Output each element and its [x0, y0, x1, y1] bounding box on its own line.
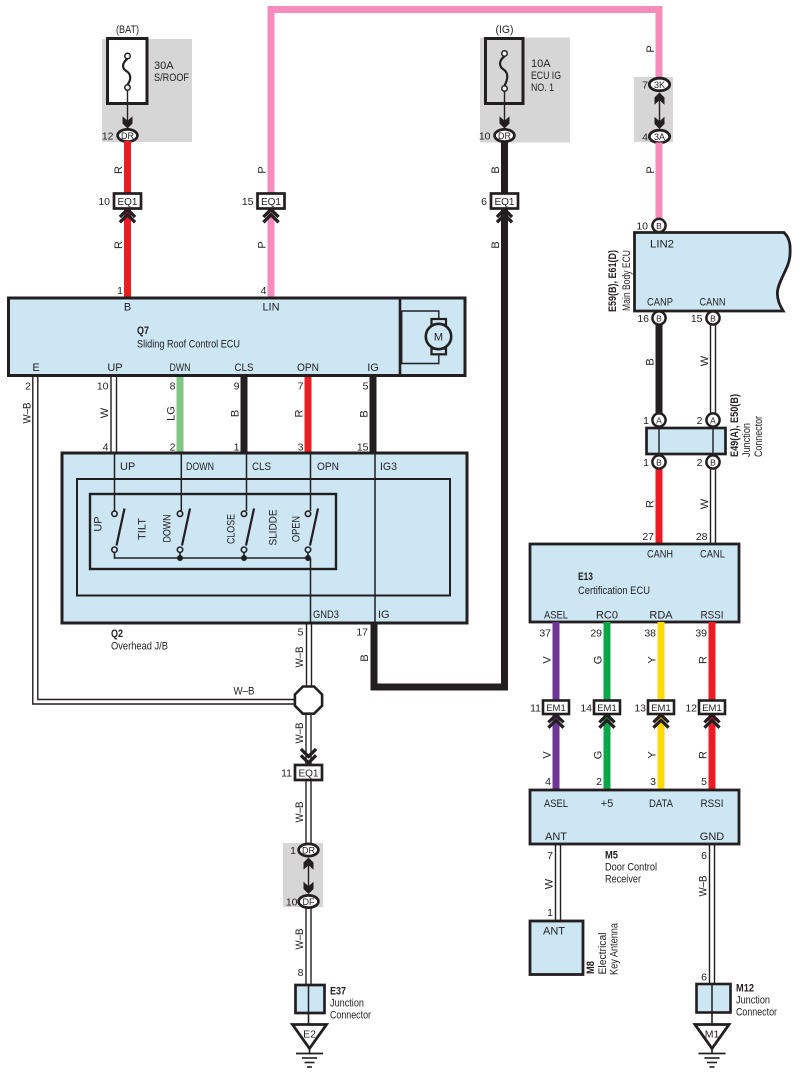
connector 14 EM1	[580, 701, 620, 728]
connector 10 DF	[286, 895, 319, 908]
connector 1 DR	[290, 844, 318, 857]
svg-text:Receiver: Receiver	[605, 874, 641, 886]
junction block Q2 Overhead J/B	[62, 453, 467, 623]
svg-text:OPN: OPN	[297, 362, 319, 374]
wire B (Q7 CLS pin 9 to Q2 pin 1)	[241, 377, 248, 453]
connector 6 EQ1	[481, 194, 518, 223]
svg-text:A: A	[710, 416, 716, 426]
svg-text:10: 10	[286, 897, 298, 909]
svg-text:ANT: ANT	[545, 831, 567, 843]
connector 2 B	[697, 455, 720, 469]
ground M1	[695, 1025, 729, 1068]
wire R (E13 RSSI 39 to M5 pin 5)	[709, 622, 716, 791]
svg-text:IG3: IG3	[380, 461, 397, 473]
svg-text:R: R	[294, 409, 306, 417]
svg-text:2: 2	[25, 381, 31, 393]
svg-text:M: M	[434, 332, 443, 344]
svg-text:W: W	[699, 498, 711, 509]
ECU Q7 Sliding Roof Control ECU	[9, 298, 466, 376]
svg-text:GND: GND	[700, 831, 725, 843]
svg-text:10: 10	[98, 196, 110, 208]
wire W (M5 ANT 7 to M8 pin 1)	[556, 844, 561, 922]
svg-text:W–B: W–B	[698, 876, 710, 897]
svg-text:B: B	[710, 458, 716, 468]
switch CLOSE	[226, 509, 255, 562]
svg-text:12: 12	[102, 131, 114, 143]
joint (octagon)	[295, 687, 322, 714]
svg-text:DR: DR	[302, 846, 315, 856]
svg-text:G: G	[593, 656, 605, 665]
svg-text:DF: DF	[303, 897, 315, 907]
junction connector E37	[296, 985, 372, 1022]
svg-text:2: 2	[697, 457, 703, 469]
svg-text:(BAT): (BAT)	[116, 24, 139, 36]
connector shading 3K/3A	[634, 77, 673, 142]
svg-text:10A: 10A	[531, 58, 551, 70]
svg-text:LIN2: LIN2	[650, 239, 674, 251]
svg-text:9: 9	[234, 381, 240, 393]
svg-text:P: P	[645, 45, 657, 52]
svg-text:CANN: CANN	[700, 297, 726, 309]
junction connector M12	[697, 983, 778, 1019]
wire Y (E13 RDA 38 to M5 pin 3)	[658, 622, 665, 791]
svg-text:TILT: TILT	[137, 518, 149, 540]
svg-text:CANH: CANH	[647, 549, 673, 561]
wire bus (switch commons)	[181, 557, 310, 559]
svg-text:1: 1	[117, 285, 123, 297]
motor M (sunroof)	[402, 311, 451, 364]
wire IG3 internal	[374, 479, 376, 623]
svg-text:CANL: CANL	[700, 549, 725, 561]
svg-text:EQ1: EQ1	[117, 197, 137, 208]
svg-text:12: 12	[685, 703, 697, 715]
svg-text:V: V	[542, 656, 554, 664]
svg-text:3A: 3A	[654, 132, 665, 142]
svg-text:M8: M8	[585, 961, 597, 974]
svg-text:W: W	[99, 407, 111, 418]
ground E2	[293, 1025, 327, 1068]
wire (E37 to ground)	[308, 1013, 310, 1025]
svg-text:7: 7	[642, 80, 648, 92]
svg-text:14: 14	[580, 703, 592, 715]
svg-text:E: E	[32, 362, 39, 374]
svg-text:LG: LG	[166, 406, 178, 421]
svg-text:A: A	[656, 416, 662, 426]
svg-text:EM1: EM1	[597, 703, 617, 714]
joint arrows DR-DF	[308, 860, 310, 890]
svg-text:ANT: ANT	[543, 926, 565, 938]
svg-text:EM1: EM1	[651, 703, 671, 714]
svg-text:V: V	[542, 751, 554, 759]
svg-text:30A: 30A	[154, 60, 174, 72]
svg-text:RDA: RDA	[649, 610, 673, 622]
svg-text:29: 29	[590, 628, 602, 640]
svg-text:EM1: EM1	[702, 703, 722, 714]
svg-text:EQ1: EQ1	[261, 197, 281, 208]
svg-text:E59(B), E61(D): E59(B), E61(D)	[607, 250, 619, 312]
svg-text:P: P	[257, 166, 269, 173]
wire P (3A to Main Body ECU)	[656, 143, 663, 221]
svg-text:Connector: Connector	[330, 1010, 371, 1022]
inner frame switch box	[90, 494, 336, 569]
svg-text:S/ROOF: S/ROOF	[154, 72, 189, 84]
svg-text:R: R	[113, 241, 125, 249]
svg-text:Key Antenna: Key Antenna	[609, 922, 621, 975]
svg-text:E37: E37	[330, 986, 346, 998]
svg-text:DOWN: DOWN	[186, 461, 214, 473]
svg-text:IG: IG	[378, 609, 390, 621]
wire P LIN harness (top run)	[271, 10, 659, 299]
svg-text:B: B	[656, 458, 662, 468]
svg-text:CLS: CLS	[252, 461, 271, 473]
svg-text:B: B	[645, 358, 657, 365]
svg-text:5: 5	[298, 627, 304, 639]
svg-text:Junction: Junction	[741, 423, 753, 457]
wire W-B (M5 GND 6 to M12)	[710, 844, 715, 985]
wire W (CANN to junction)	[711, 324, 716, 415]
connector 11 EQ1	[281, 749, 322, 780]
connector 12 EM1	[685, 701, 725, 728]
svg-text:11: 11	[281, 768, 292, 780]
svg-text:B: B	[656, 221, 662, 231]
svg-text:DWN: DWN	[170, 362, 191, 374]
svg-text:7: 7	[547, 850, 553, 862]
ECU E59/E61 Main Body ECU	[607, 233, 790, 313]
svg-text:W–B: W–B	[294, 929, 306, 950]
connector shading DR/DF	[283, 843, 323, 907]
connector 16 B	[637, 311, 665, 325]
connector 12 DR	[102, 129, 138, 142]
svg-text:RSSI: RSSI	[701, 610, 724, 622]
wire GND3 internal	[310, 558, 312, 623]
svg-text:W–B: W–B	[294, 647, 306, 668]
svg-text:6: 6	[701, 972, 707, 984]
svg-text:10: 10	[97, 381, 109, 393]
svg-text:W: W	[544, 878, 556, 889]
switch DOWN	[162, 509, 191, 562]
svg-text:Q7: Q7	[137, 325, 149, 337]
svg-text:17: 17	[356, 627, 368, 639]
svg-text:Overhead J/B: Overhead J/B	[111, 641, 168, 653]
svg-text:EM1: EM1	[546, 703, 566, 714]
svg-text:UP: UP	[93, 516, 105, 531]
inner frame outer	[77, 479, 450, 596]
svg-text:5: 5	[363, 381, 369, 393]
connector 15 B	[691, 311, 720, 325]
svg-text:Electrical: Electrical	[597, 933, 609, 975]
svg-text:16: 16	[637, 313, 649, 325]
connector 1 A	[643, 413, 665, 427]
svg-text:8: 8	[170, 381, 176, 393]
svg-text:4: 4	[642, 132, 648, 144]
svg-text:1: 1	[290, 845, 296, 857]
wire W-B (GND3 to joint)	[307, 624, 312, 688]
svg-text:Junction: Junction	[736, 995, 770, 1007]
svg-text:CLS: CLS	[235, 362, 254, 374]
fuse 30A S/ROOF	[108, 39, 190, 104]
ECU E13 Certification ECU	[530, 544, 739, 622]
svg-text:OPN: OPN	[317, 461, 339, 473]
svg-text:7: 7	[298, 381, 304, 393]
svg-text:4: 4	[261, 285, 267, 297]
wire UP internal	[114, 453, 116, 511]
svg-text:G: G	[593, 751, 605, 760]
svg-text:B: B	[490, 241, 502, 248]
svg-text:EQ1: EQ1	[298, 768, 318, 779]
svg-text:R: R	[645, 500, 657, 508]
svg-text:15: 15	[691, 313, 703, 325]
connector 4 3A	[642, 130, 670, 143]
svg-text:3: 3	[650, 776, 656, 788]
svg-text:E49(A), E50(B): E49(A), E50(B)	[729, 394, 741, 457]
svg-text:(IG): (IG)	[496, 24, 514, 36]
svg-text:11: 11	[530, 703, 541, 715]
svg-text:4: 4	[545, 776, 551, 788]
svg-text:B: B	[230, 410, 242, 417]
switch UP	[93, 509, 182, 559]
svg-text:Junction: Junction	[330, 998, 364, 1010]
svg-text:Q2: Q2	[111, 628, 123, 640]
svg-text:E2: E2	[303, 1029, 316, 1041]
svg-text:Connector: Connector	[753, 416, 765, 457]
svg-text:UP: UP	[120, 461, 135, 473]
svg-text:Y: Y	[647, 751, 659, 759]
fuse 10A ECU IG NO.1	[486, 39, 562, 104]
wire fuse lead to connector	[127, 90, 129, 122]
svg-text:5: 5	[701, 776, 707, 788]
svg-text:Door Control: Door Control	[605, 862, 657, 874]
connector 10 B (LIN2)	[636, 219, 665, 233]
connector 10 EQ1	[98, 194, 141, 223]
wire B (IG fuse to Q2 pin IG 17)	[374, 141, 505, 687]
connector 15 EQ1	[242, 194, 285, 223]
svg-text:8: 8	[298, 967, 304, 979]
svg-text:M5: M5	[605, 850, 618, 862]
svg-text:SLIDDE: SLIDDE	[268, 510, 280, 546]
switch OPEN	[291, 509, 319, 562]
wire W (junction to E13 CANL pin 28)	[711, 468, 716, 546]
svg-text:UP: UP	[107, 362, 122, 374]
svg-text:W: W	[699, 355, 711, 366]
svg-text:EQ1: EQ1	[494, 197, 514, 208]
svg-text:NO. 1: NO. 1	[531, 82, 554, 94]
wire W-B (DF to E37)	[306, 908, 311, 987]
svg-text:OPEN: OPEN	[291, 516, 303, 542]
svg-text:1: 1	[643, 457, 649, 469]
connector 2 A	[697, 413, 720, 427]
wire (M12 to ground)	[711, 1013, 713, 1025]
receiver M5 Door Control Receiver	[530, 790, 739, 844]
svg-text:DR: DR	[498, 131, 511, 141]
svg-text:28: 28	[696, 531, 708, 543]
svg-text:DOWN: DOWN	[162, 514, 174, 542]
joint arrows 3K-3A	[659, 95, 661, 125]
svg-text:27: 27	[642, 531, 654, 543]
svg-text:+5: +5	[601, 798, 614, 810]
junction connector E49/E50	[647, 394, 766, 457]
svg-text:RC0: RC0	[596, 610, 618, 622]
svg-text:B: B	[710, 314, 716, 324]
connector 1 B	[643, 455, 665, 469]
svg-text:W–B: W–B	[22, 403, 34, 424]
svg-text:Sliding Roof Control ECU: Sliding Roof Control ECU	[137, 339, 240, 351]
svg-text:W–B: W–B	[234, 686, 255, 698]
svg-text:DATA: DATA	[649, 798, 674, 810]
wire R (fuse to Q7 pin 1)	[124, 141, 131, 298]
svg-text:CLOSE: CLOSE	[226, 514, 238, 544]
svg-text:R: R	[698, 656, 710, 664]
svg-text:P: P	[257, 241, 269, 248]
svg-text:R: R	[113, 166, 125, 174]
svg-text:Certification ECU: Certification ECU	[578, 585, 650, 597]
svg-text:B: B	[359, 410, 371, 417]
svg-text:P: P	[645, 166, 657, 173]
svg-text:M12: M12	[736, 983, 754, 995]
svg-text:CANP: CANP	[647, 297, 673, 309]
svg-text:E13: E13	[578, 571, 593, 583]
antenna M8 Electrical Key Antenna	[530, 921, 621, 975]
svg-text:10: 10	[636, 221, 648, 233]
wire W-B (joint to 11 EQ1)	[306, 714, 311, 765]
svg-text:1: 1	[547, 907, 553, 919]
connector 10 DR	[479, 129, 515, 142]
wire B (CANP to junction)	[656, 324, 663, 415]
svg-text:37: 37	[539, 628, 551, 640]
svg-text:Y: Y	[647, 656, 659, 664]
svg-text:39: 39	[695, 628, 707, 640]
svg-text:2: 2	[596, 776, 602, 788]
svg-text:3K: 3K	[654, 80, 665, 90]
wire W (Q7 UP pin 10 to Q2 pin 4)	[111, 377, 117, 453]
svg-text:LIN: LIN	[262, 302, 279, 314]
wire W-B (EQ1 to DR)	[306, 780, 311, 845]
wire OPN internal	[310, 453, 312, 511]
svg-text:38: 38	[644, 628, 656, 640]
connector 11 EM1	[530, 701, 569, 728]
wire LG (Q7 DWN pin 8 to Q2 pin 2)	[177, 377, 184, 453]
svg-text:6: 6	[481, 196, 487, 208]
svg-text:W–B: W–B	[294, 723, 306, 744]
svg-text:GND3: GND3	[313, 609, 339, 621]
svg-text:DR: DR	[121, 131, 134, 141]
svg-text:Main Body ECU: Main Body ECU	[621, 250, 633, 311]
wire V (E13 ASEL 37 to M5 pin 4)	[553, 622, 560, 791]
wire R (junction to E13 CANH pin 27)	[656, 468, 663, 546]
wire fuse lead to connector	[504, 91, 506, 122]
svg-text:W–B: W–B	[294, 802, 306, 823]
svg-text:15: 15	[242, 196, 254, 208]
wire W-B (Q7 pin E to octagon joint)	[33, 377, 296, 704]
svg-text:10: 10	[479, 131, 491, 143]
svg-text:B: B	[656, 314, 662, 324]
svg-text:ASEL: ASEL	[544, 798, 568, 810]
svg-text:6: 6	[701, 850, 707, 862]
connector 7 3K	[642, 78, 670, 91]
wire DOWN internal	[180, 453, 182, 511]
wire G (E13 RC0 29 to M5 pin 2)	[604, 622, 611, 791]
svg-text:Connector: Connector	[736, 1007, 777, 1019]
svg-text:R: R	[698, 751, 710, 759]
svg-text:B: B	[490, 166, 502, 173]
fuse block shading (IG)	[480, 38, 570, 143]
svg-text:B: B	[124, 302, 131, 314]
connector 13 EM1	[634, 701, 674, 728]
fuse block shading (BAT)	[102, 39, 192, 142]
wire R (Q7 OPN pin 7 to Q2 pin 3)	[305, 377, 312, 453]
svg-text:ECU IG: ECU IG	[531, 70, 561, 82]
svg-text:2: 2	[697, 415, 703, 427]
svg-text:13: 13	[634, 703, 646, 715]
svg-text:RSSI: RSSI	[701, 798, 724, 810]
svg-text:ASEL: ASEL	[544, 610, 568, 622]
svg-text:B: B	[359, 654, 371, 661]
wire CLS internal	[246, 453, 248, 511]
wire B (Q7 IG pin 5 to Q2 pin 15)	[370, 377, 377, 453]
svg-text:IG: IG	[367, 362, 379, 374]
svg-text:1: 1	[643, 415, 649, 427]
svg-text:M1: M1	[705, 1029, 720, 1041]
